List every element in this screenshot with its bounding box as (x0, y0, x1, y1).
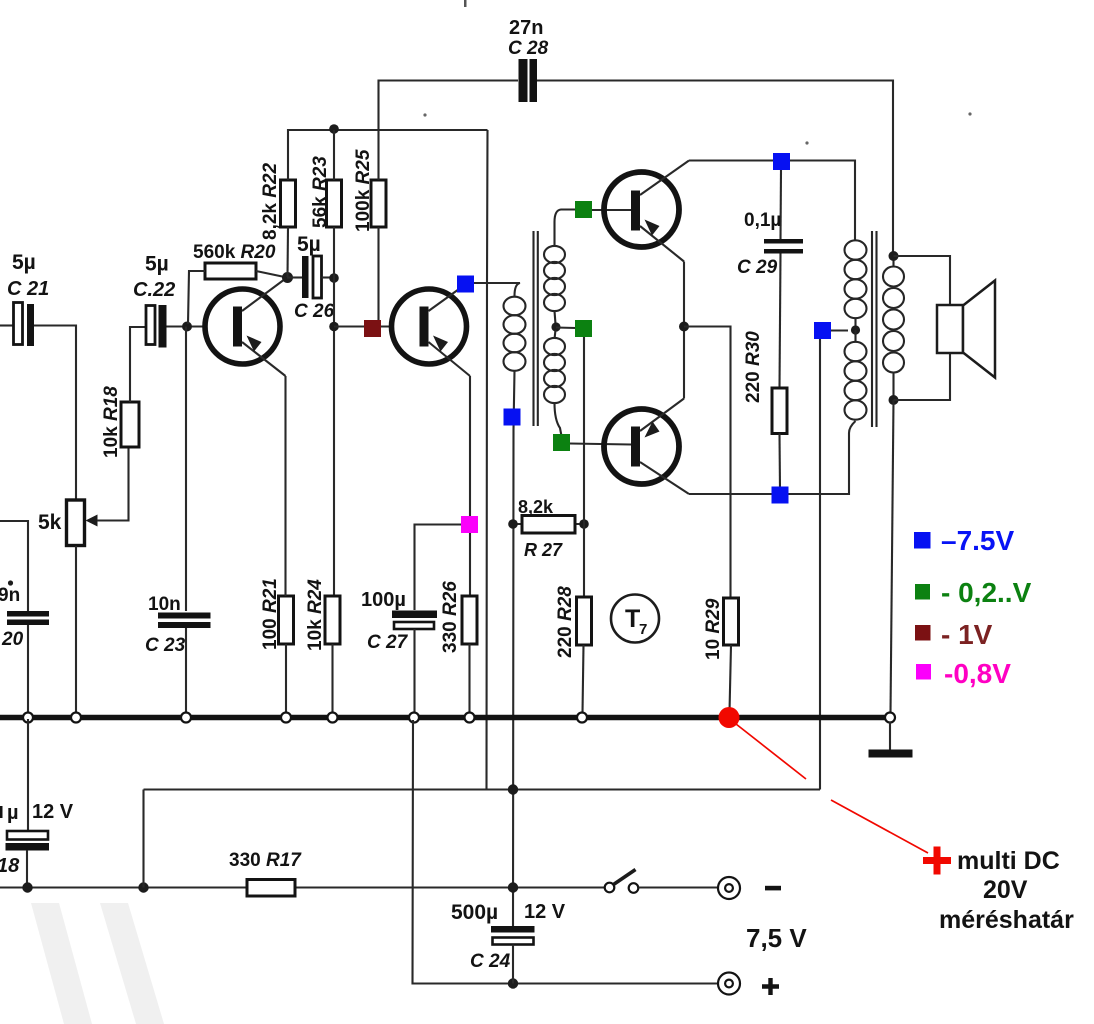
wire: pot wiper to R18 (97, 448, 129, 521)
legend -0.2V (915, 577, 1032, 608)
resistor R22 8.2k (260, 162, 296, 240)
wire: C27 to bus (413, 629, 415, 715)
wire: R28 bottom to bus (583, 645, 584, 713)
svg-text:220 R30: 220 R30 (743, 331, 764, 403)
node: bus terminal R28 (577, 713, 587, 723)
resistor R30 220 (743, 331, 787, 434)
wire: R25 top to C28 feedback wire (379, 81, 519, 181)
wire: R22 top / supply rail top wire (288, 130, 488, 180)
wire: base node down to C23 (185, 327, 187, 612)
wire: R24 bottom to bus (331, 644, 333, 715)
resistor R25 100k (353, 149, 386, 232)
node: bus terminal R26 (465, 713, 475, 723)
node H: -0.2V marker at T9 base (553, 434, 570, 451)
resistor R17 330 (229, 850, 302, 896)
wire: R17 battery wire (0, 886, 604, 888)
node: bus terminal R24 (328, 713, 338, 723)
wire: T8 collector to output transformer primary top (689, 161, 855, 242)
capacitor C27 100µ (361, 589, 437, 653)
svg-text:C.22: C.22 (133, 279, 175, 301)
node: red measurement point on bus (719, 707, 740, 728)
wire: secondary to speaker bottom (894, 353, 951, 400)
wire: secondary bottom to ground bus (891, 400, 894, 713)
resistor R29 10 (703, 598, 739, 660)
wire: T6 emitter down to R26 (469, 376, 471, 596)
wire: C28 right to output transformer secondary (537, 81, 893, 257)
wire: Tr1 primary bottom / supply line down (513, 371, 515, 926)
wire: R23 top lead (333, 130, 335, 180)
wire: magenta node to C27 (415, 525, 462, 611)
wire: R26 bottom to bus (468, 644, 470, 715)
wire: R23 bottom down to R24 top (333, 227, 335, 596)
node: R23 top junction (329, 124, 339, 134)
svg-text:10n: 10n (148, 594, 181, 615)
transistor T8 (upper output) (604, 161, 689, 262)
ground bus (0, 715, 886, 720)
transistor T5 (205, 278, 287, 377)
wire: -7.5V distribution rail (144, 788, 821, 790)
svg-text:7,5 V: 7,5 V (746, 923, 807, 953)
svg-text:330 R26: 330 R26 (440, 581, 461, 653)
svg-text:220 R28: 220 R28 (555, 586, 576, 658)
node: T5 collector junction (282, 272, 293, 283)
node: secondary bottom junction (889, 395, 899, 405)
svg-text:–7.5V: –7.5V (941, 525, 1014, 556)
switch (605, 870, 718, 893)
wire: collector node to C26 (287, 276, 302, 278)
potentiometer 5k (38, 500, 98, 546)
svg-text:5µ: 5µ (297, 233, 321, 256)
svg-text:18: 18 (0, 855, 20, 877)
transformer Tr1 core (534, 231, 538, 426)
resistor R27 8.2k (513, 497, 584, 560)
svg-text:27n: 27n (509, 17, 543, 39)
watermark (31, 903, 164, 1024)
wire: R20 right lead to collector node (256, 271, 287, 278)
capacitor C22 (133, 253, 175, 348)
resistor R21 100 (260, 578, 294, 650)
svg-text:12 V: 12 V (524, 901, 566, 923)
speaker (937, 281, 995, 378)
node: emitter junction (679, 322, 689, 332)
red plus marker (923, 847, 951, 875)
capacitor C23 10n (145, 594, 211, 656)
svg-text:5k: 5k (38, 511, 62, 534)
node: R27 right junction (579, 519, 589, 529)
svg-text:5µ: 5µ (12, 251, 36, 274)
wire: Tr1 secondary bottom to T9 base (570, 444, 631, 445)
node: base T5 junction (182, 322, 192, 332)
svg-text:330 R17: 330 R17 (229, 850, 302, 871)
legend -7.5V (914, 525, 1014, 556)
wire: T5 emitter line to R21 and bus (284, 376, 287, 715)
node: bus terminal C20 (23, 713, 33, 723)
svg-text:C 28: C 28 (508, 38, 549, 59)
node C: -7.5V marker at Tr2 centre tap (814, 322, 831, 339)
resistor R24 10k (305, 579, 340, 651)
wire: T6 collector to driver transformer primary (474, 283, 520, 296)
svg-text:C 23: C 23 (145, 635, 186, 656)
svg-text:8,2k: 8,2k (518, 497, 554, 517)
capacitor C24 500µ 12V (451, 901, 566, 972)
resistor R20 560k (193, 242, 276, 279)
wire: C29 to R30 (780, 254, 781, 389)
capacitor C26 5µ (294, 233, 335, 322)
svg-text:- 0,2..V: - 0,2..V (941, 577, 1032, 608)
transistor T6 (392, 284, 471, 376)
svg-text:R 27: R 27 (524, 540, 563, 560)
wire: C22 to T5 base (167, 325, 206, 327)
svg-text:C 24: C 24 (470, 951, 511, 972)
wire: R29 bottom to bus red node (730, 645, 732, 712)
svg-text:C 29: C 29 (737, 257, 778, 278)
transformer Tr2 core (872, 231, 877, 427)
svg-text:C 27: C 27 (367, 632, 409, 653)
scan speck 3 (968, 112, 971, 115)
transformer Tr2 primary bottom winding (845, 330, 867, 420)
wire: left stub at y521 to C20 (0, 521, 28, 611)
node I: -1V marker at T6 base (364, 320, 381, 337)
wire: R30 bottom to emitter wire (778, 434, 781, 491)
transformer Tr1 primary coil (504, 297, 526, 371)
resistor R28 220 (555, 586, 592, 658)
resistor R23 56k (310, 156, 342, 228)
capacitor C20 (9n, edge-clipped) (0, 580, 49, 650)
svg-text:-0,8V: -0,8V (944, 658, 1011, 689)
svg-text:20V: 20V (983, 876, 1028, 904)
wire: plus wire from bus to plus jack (413, 720, 718, 984)
wire: R20 left lead to base node (188, 271, 205, 324)
wire: centre-tap line down through R28 (583, 337, 585, 597)
node: battery line junction (508, 882, 518, 892)
capacitor C18 (1µ 12V, edge-clipped) (0, 801, 74, 877)
svg-text:12 V: 12 V (32, 801, 74, 823)
wire: R25 bottom to T6 base (377, 227, 379, 322)
scan speck 2 (423, 113, 426, 116)
node B: -7.5V marker at T8 collector (773, 153, 790, 170)
scan speck 4 (805, 141, 808, 144)
svg-text:100µ: 100µ (361, 589, 406, 611)
wire: green node to T8 base (592, 209, 631, 211)
wire: C18 to R17 wire (26, 850, 28, 888)
svg-text:20: 20 (1, 629, 24, 650)
wire: C26 right plate to R23 line (322, 276, 335, 278)
transformer Tr2 primary top winding (845, 240, 867, 330)
node: C26/R23 junction (329, 273, 339, 283)
node G: -0.2V marker at Tr1 centre tap (575, 320, 592, 337)
wire: R18 top to C22 input (130, 327, 146, 402)
wire: C20 line below bus to C18 (27, 719, 29, 831)
transformer Tr1 secondary bottom winding (544, 330, 565, 436)
legend -0.8V (916, 658, 1011, 689)
svg-text:10 R29: 10 R29 (703, 598, 724, 660)
svg-text:5µ: 5µ (145, 253, 169, 276)
node: R27 left junction (508, 519, 518, 529)
transformer Tr1 secondary top winding (544, 210, 575, 325)
resistor R18 10k (101, 386, 139, 458)
svg-text:7: 7 (639, 621, 647, 638)
wire: emitter node to R29 (684, 327, 731, 599)
wire: emitters join line (683, 262, 685, 399)
svg-text:0,1µ: 0,1µ (744, 210, 781, 231)
node E: -7.5V marker at R30 bottom (772, 487, 789, 504)
node D: -7.5V marker on supply line (504, 409, 521, 426)
node: Tr1 secondary centre tap (551, 322, 560, 331)
svg-text:9n: 9n (0, 585, 20, 606)
node: bus terminal right end (885, 713, 895, 723)
terminal plus jack (718, 973, 779, 996)
svg-text:10k R18: 10k R18 (101, 386, 122, 458)
wire: pot bottom to ground bus (75, 546, 77, 715)
wire: riser from R17 wire to -7.5V rail (142, 790, 144, 888)
capacitor C28 27n (508, 17, 549, 102)
svg-text:10k R24: 10k R24 (305, 579, 326, 651)
node: C18 junction (22, 882, 32, 892)
scan speck top (464, 0, 467, 7)
svg-text:- 1V: - 1V (941, 619, 993, 650)
wire: centre tap to green node (556, 326, 576, 329)
wire: supply drop from top wire to collector wire and down (487, 130, 488, 790)
annotation text multi DC (939, 847, 1074, 934)
node J: -0.8V marker at T6 emitter (461, 516, 478, 533)
symbol T7 (stage label) (611, 595, 659, 643)
wire: C21 to volume pot (34, 326, 76, 501)
node: secondary top junction (889, 251, 899, 261)
svg-text:multi DC: multi DC (957, 847, 1060, 875)
node: bus terminal C27 (409, 713, 419, 723)
svg-text:C 21: C 21 (7, 278, 49, 300)
svg-text:100 R21: 100 R21 (260, 578, 281, 650)
node: bus terminal C23 (181, 713, 191, 723)
capacitor C29 0.1µ (737, 170, 803, 278)
node: Tr2 primary centre tap (851, 325, 860, 334)
transistor T9 (lower output) (604, 399, 689, 495)
wire: secondary to speaker top (894, 256, 951, 305)
node A: -7.5V marker at T6 collector (457, 276, 474, 293)
node F: -0.2V marker at T8 base (575, 201, 592, 218)
svg-text:56k R23: 56k R23 (310, 156, 331, 228)
wire: C20 to bus (27, 625, 29, 715)
transformer Tr2 secondary winding (883, 256, 904, 400)
legend -1V (915, 619, 993, 650)
node: rail junction at supply line (508, 784, 518, 794)
ground (869, 722, 913, 758)
svg-text:8,2k R22: 8,2k R22 (260, 162, 281, 240)
terminal minus jack (718, 877, 781, 899)
svg-text:T: T (625, 605, 640, 633)
node: supply riser junction (138, 882, 148, 892)
wire: C24 bottom lead (512, 945, 514, 984)
wire: T9 collector wire to output transformer primary bottom (689, 421, 856, 494)
node: bus terminal R21 (281, 713, 291, 723)
wire: supply rail to output transformer centre tap (820, 331, 848, 790)
svg-text:100k R25: 100k R25 (353, 149, 374, 232)
wire: input stub to C21 (0, 324, 13, 326)
svg-text:µ: µ (7, 802, 19, 824)
svg-text:méréshatár: méréshatár (939, 906, 1074, 934)
node: T6 base junction (329, 322, 339, 332)
svg-text:560k R20: 560k R20 (193, 242, 276, 263)
resistor R26 330 (440, 581, 477, 653)
svg-text:500µ: 500µ (451, 901, 498, 924)
wire: T6 base wire (334, 325, 391, 327)
node: bus terminal pot (71, 713, 81, 723)
wire: R22 bottom to collector node (286, 227, 289, 277)
wire: C23 to bus (185, 628, 187, 715)
svg-text:C 26: C 26 (294, 301, 335, 322)
capacitor C21 (7, 251, 49, 346)
node: C24 bottom junction (508, 978, 518, 988)
red annotation line (736, 724, 928, 853)
